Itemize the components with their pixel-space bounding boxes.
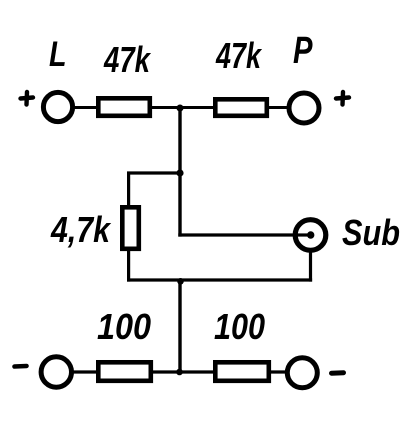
resistor R4 100 (bottom left) bbox=[98, 362, 151, 381]
wire R3 bottom down bbox=[127, 249, 130, 282]
node D junction dot bbox=[176, 369, 183, 376]
svg-text:47k: 47k bbox=[215, 35, 262, 76]
terminal Sub wire stub into circle bbox=[295, 233, 309, 236]
terminal Sub center dot bbox=[307, 231, 314, 238]
minus sign bottom-right bbox=[332, 370, 344, 376]
wire node B to left branch bbox=[127, 171, 182, 174]
svg-text:4,7k: 4,7k bbox=[50, 209, 111, 250]
terminal Sub (circle) bbox=[295, 220, 326, 251]
wire node C down to bottom rail bbox=[178, 280, 181, 372]
resistor R3 4,7k (vertical) bbox=[122, 207, 139, 249]
wire node B down to Sub branch corner bbox=[178, 173, 181, 237]
svg-text:L: L bbox=[49, 35, 67, 74]
minus sign bottom-left bbox=[15, 364, 27, 369]
plus sign left bbox=[21, 92, 34, 105]
terminal minus-left (circle) bbox=[41, 357, 71, 387]
plus sign right bbox=[336, 92, 349, 105]
resistor R5 100 (bottom right) bbox=[215, 362, 268, 381]
wire left branch down to R3 top bbox=[127, 172, 130, 209]
terminal minus-right (circle) bbox=[287, 358, 317, 388]
wire bottom rail bbox=[73, 370, 287, 373]
wire vertical from top rail to node B bbox=[178, 108, 181, 175]
svg-text:100: 100 bbox=[214, 306, 265, 347]
svg-text:P: P bbox=[293, 30, 313, 72]
svg-text:Sub: Sub bbox=[342, 212, 400, 253]
svg-text:47k: 47k bbox=[103, 39, 151, 80]
node C junction dot bbox=[177, 278, 184, 285]
resistor R1 47k (top left) bbox=[98, 98, 150, 116]
terminal P (circle) bbox=[289, 93, 319, 123]
node A junction dot bbox=[177, 105, 184, 112]
resistor R2 47k (top right) bbox=[215, 99, 266, 116]
svg-text:100: 100 bbox=[97, 306, 151, 347]
terminal L (circle) bbox=[43, 92, 72, 121]
wire corner to Sub center bbox=[178, 233, 309, 236]
wire Sub drop bbox=[309, 250, 312, 282]
wire middle bottom rail bbox=[127, 278, 312, 281]
wire top rail bbox=[72, 106, 289, 109]
node B junction dot bbox=[176, 169, 183, 176]
